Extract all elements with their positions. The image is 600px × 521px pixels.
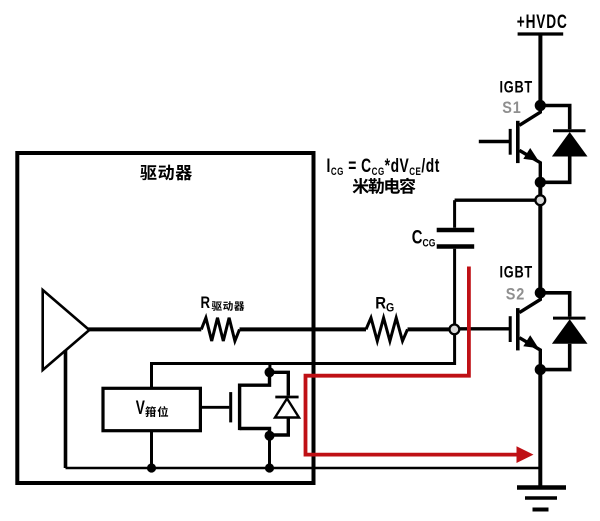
svg-text:R: R: [201, 294, 211, 313]
svg-text:IGBT: IGBT: [500, 78, 533, 97]
svg-text:+HVDC: +HVDC: [517, 11, 568, 33]
svg-text:V: V: [136, 397, 145, 419]
svg-text:S2: S2: [506, 286, 525, 304]
svg-text:S1: S1: [502, 99, 521, 117]
svg-text:IGBT: IGBT: [500, 263, 533, 282]
